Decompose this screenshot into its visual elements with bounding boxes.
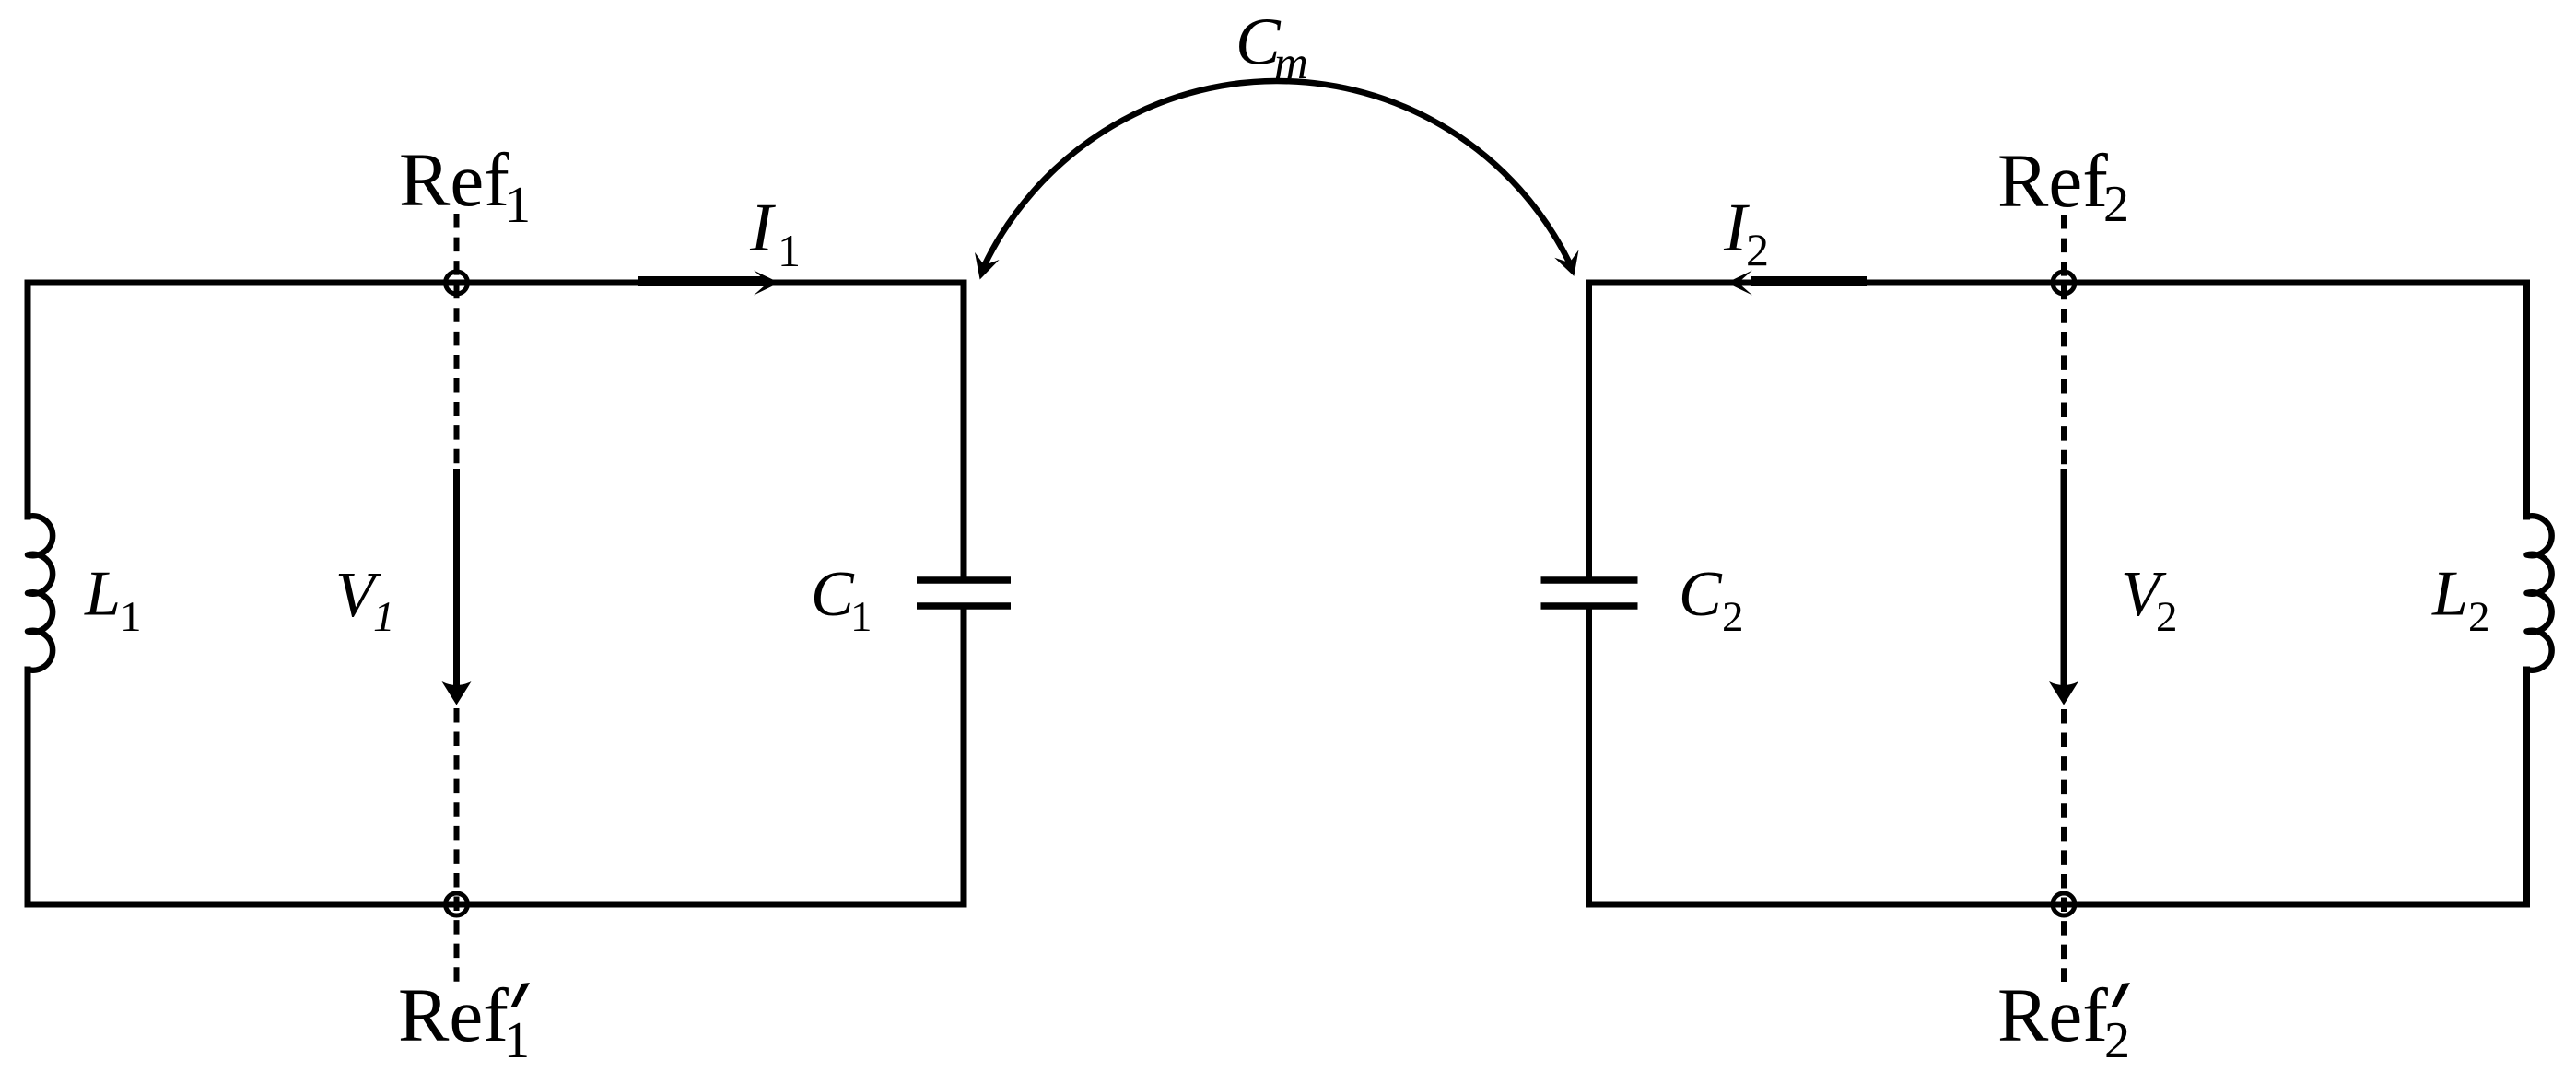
svg-text:2: 2 bbox=[2104, 1012, 2130, 1069]
wire right side upper segment of loop 2 bbox=[2523, 283, 2530, 517]
label I1 bbox=[749, 190, 801, 276]
node reference line Ref2 (dashed) bbox=[2061, 215, 2067, 982]
label V2 bbox=[2121, 559, 2178, 641]
svg-text:Ref: Ref bbox=[1997, 972, 2108, 1057]
svg-text:m: m bbox=[1274, 38, 1308, 89]
wire right side lower segment of loop 2 bbox=[2523, 670, 2530, 904]
svg-text:2: 2 bbox=[1746, 224, 1769, 275]
label Ref2 bbox=[1997, 138, 2129, 233]
label C1 bbox=[811, 559, 872, 641]
capacitor C2 plates bbox=[1541, 580, 1638, 606]
label V1 bbox=[335, 560, 395, 641]
node Ref1 (top terminal circle) bbox=[446, 272, 468, 294]
label Ref1 bbox=[399, 137, 531, 234]
svg-text:C: C bbox=[811, 559, 855, 630]
current arrow I1 bbox=[638, 271, 779, 296]
inductor L1 bbox=[28, 516, 53, 670]
svg-text:1: 1 bbox=[373, 593, 395, 641]
svg-text:Ref: Ref bbox=[398, 972, 509, 1057]
wire top side of loop 1 bbox=[28, 280, 964, 286]
node Ref2 (top terminal circle) bbox=[2053, 272, 2075, 294]
node Ref1' (bottom terminal circle) bbox=[446, 893, 468, 915]
wire top side of loop 2 bbox=[1589, 280, 2527, 286]
svg-text:2: 2 bbox=[2156, 593, 2178, 641]
svg-text:1: 1 bbox=[504, 1012, 530, 1069]
wire left side lower segment of loop 2 bbox=[1586, 608, 1592, 904]
wire left side upper segment of loop 1 bbox=[25, 283, 31, 517]
svg-text:2: 2 bbox=[2468, 593, 2490, 641]
current arrow I2 bbox=[1727, 271, 1867, 296]
svg-text:L: L bbox=[2431, 559, 2468, 630]
voltage arrow V2 bbox=[2049, 469, 2078, 705]
svg-text:1: 1 bbox=[778, 225, 801, 276]
node reference line Ref1 (dashed) bbox=[454, 214, 460, 982]
inductor L2 bbox=[2527, 516, 2552, 670]
svg-text:Ref: Ref bbox=[399, 137, 509, 222]
label Ref1' bbox=[398, 972, 530, 1069]
label I2 bbox=[1723, 190, 1769, 275]
svg-text:L: L bbox=[84, 559, 121, 630]
wire bottom side of loop 2 bbox=[1589, 902, 2527, 908]
svg-text:1: 1 bbox=[505, 177, 531, 234]
label C2 bbox=[1679, 559, 1744, 641]
svg-text:2: 2 bbox=[1722, 593, 1744, 641]
svg-text:2: 2 bbox=[2103, 176, 2129, 233]
wire left side lower segment of loop 1 bbox=[25, 670, 31, 904]
label Ref2' bbox=[1997, 972, 2130, 1069]
label L1 bbox=[84, 559, 142, 642]
svg-text:1: 1 bbox=[120, 593, 142, 641]
label Cm bbox=[1235, 5, 1308, 90]
svg-text:1: 1 bbox=[850, 593, 872, 641]
wire bottom side of loop 1 bbox=[28, 902, 964, 908]
wire left side upper segment of loop 2 bbox=[1586, 283, 1592, 578]
mutual capacitance coupling arrow Cm bbox=[975, 81, 1579, 279]
label L2 bbox=[2431, 559, 2490, 642]
wire right side lower segment of loop 1 bbox=[961, 608, 967, 904]
svg-text:C: C bbox=[1679, 559, 1723, 630]
wire right side upper segment of loop 1 bbox=[961, 283, 967, 578]
capacitor C1 plates bbox=[917, 580, 1011, 606]
node Ref2' (bottom terminal circle) bbox=[2053, 893, 2075, 915]
svg-text:Ref: Ref bbox=[1997, 138, 2108, 223]
voltage arrow V1 bbox=[442, 469, 472, 705]
svg-text:I: I bbox=[749, 190, 776, 266]
